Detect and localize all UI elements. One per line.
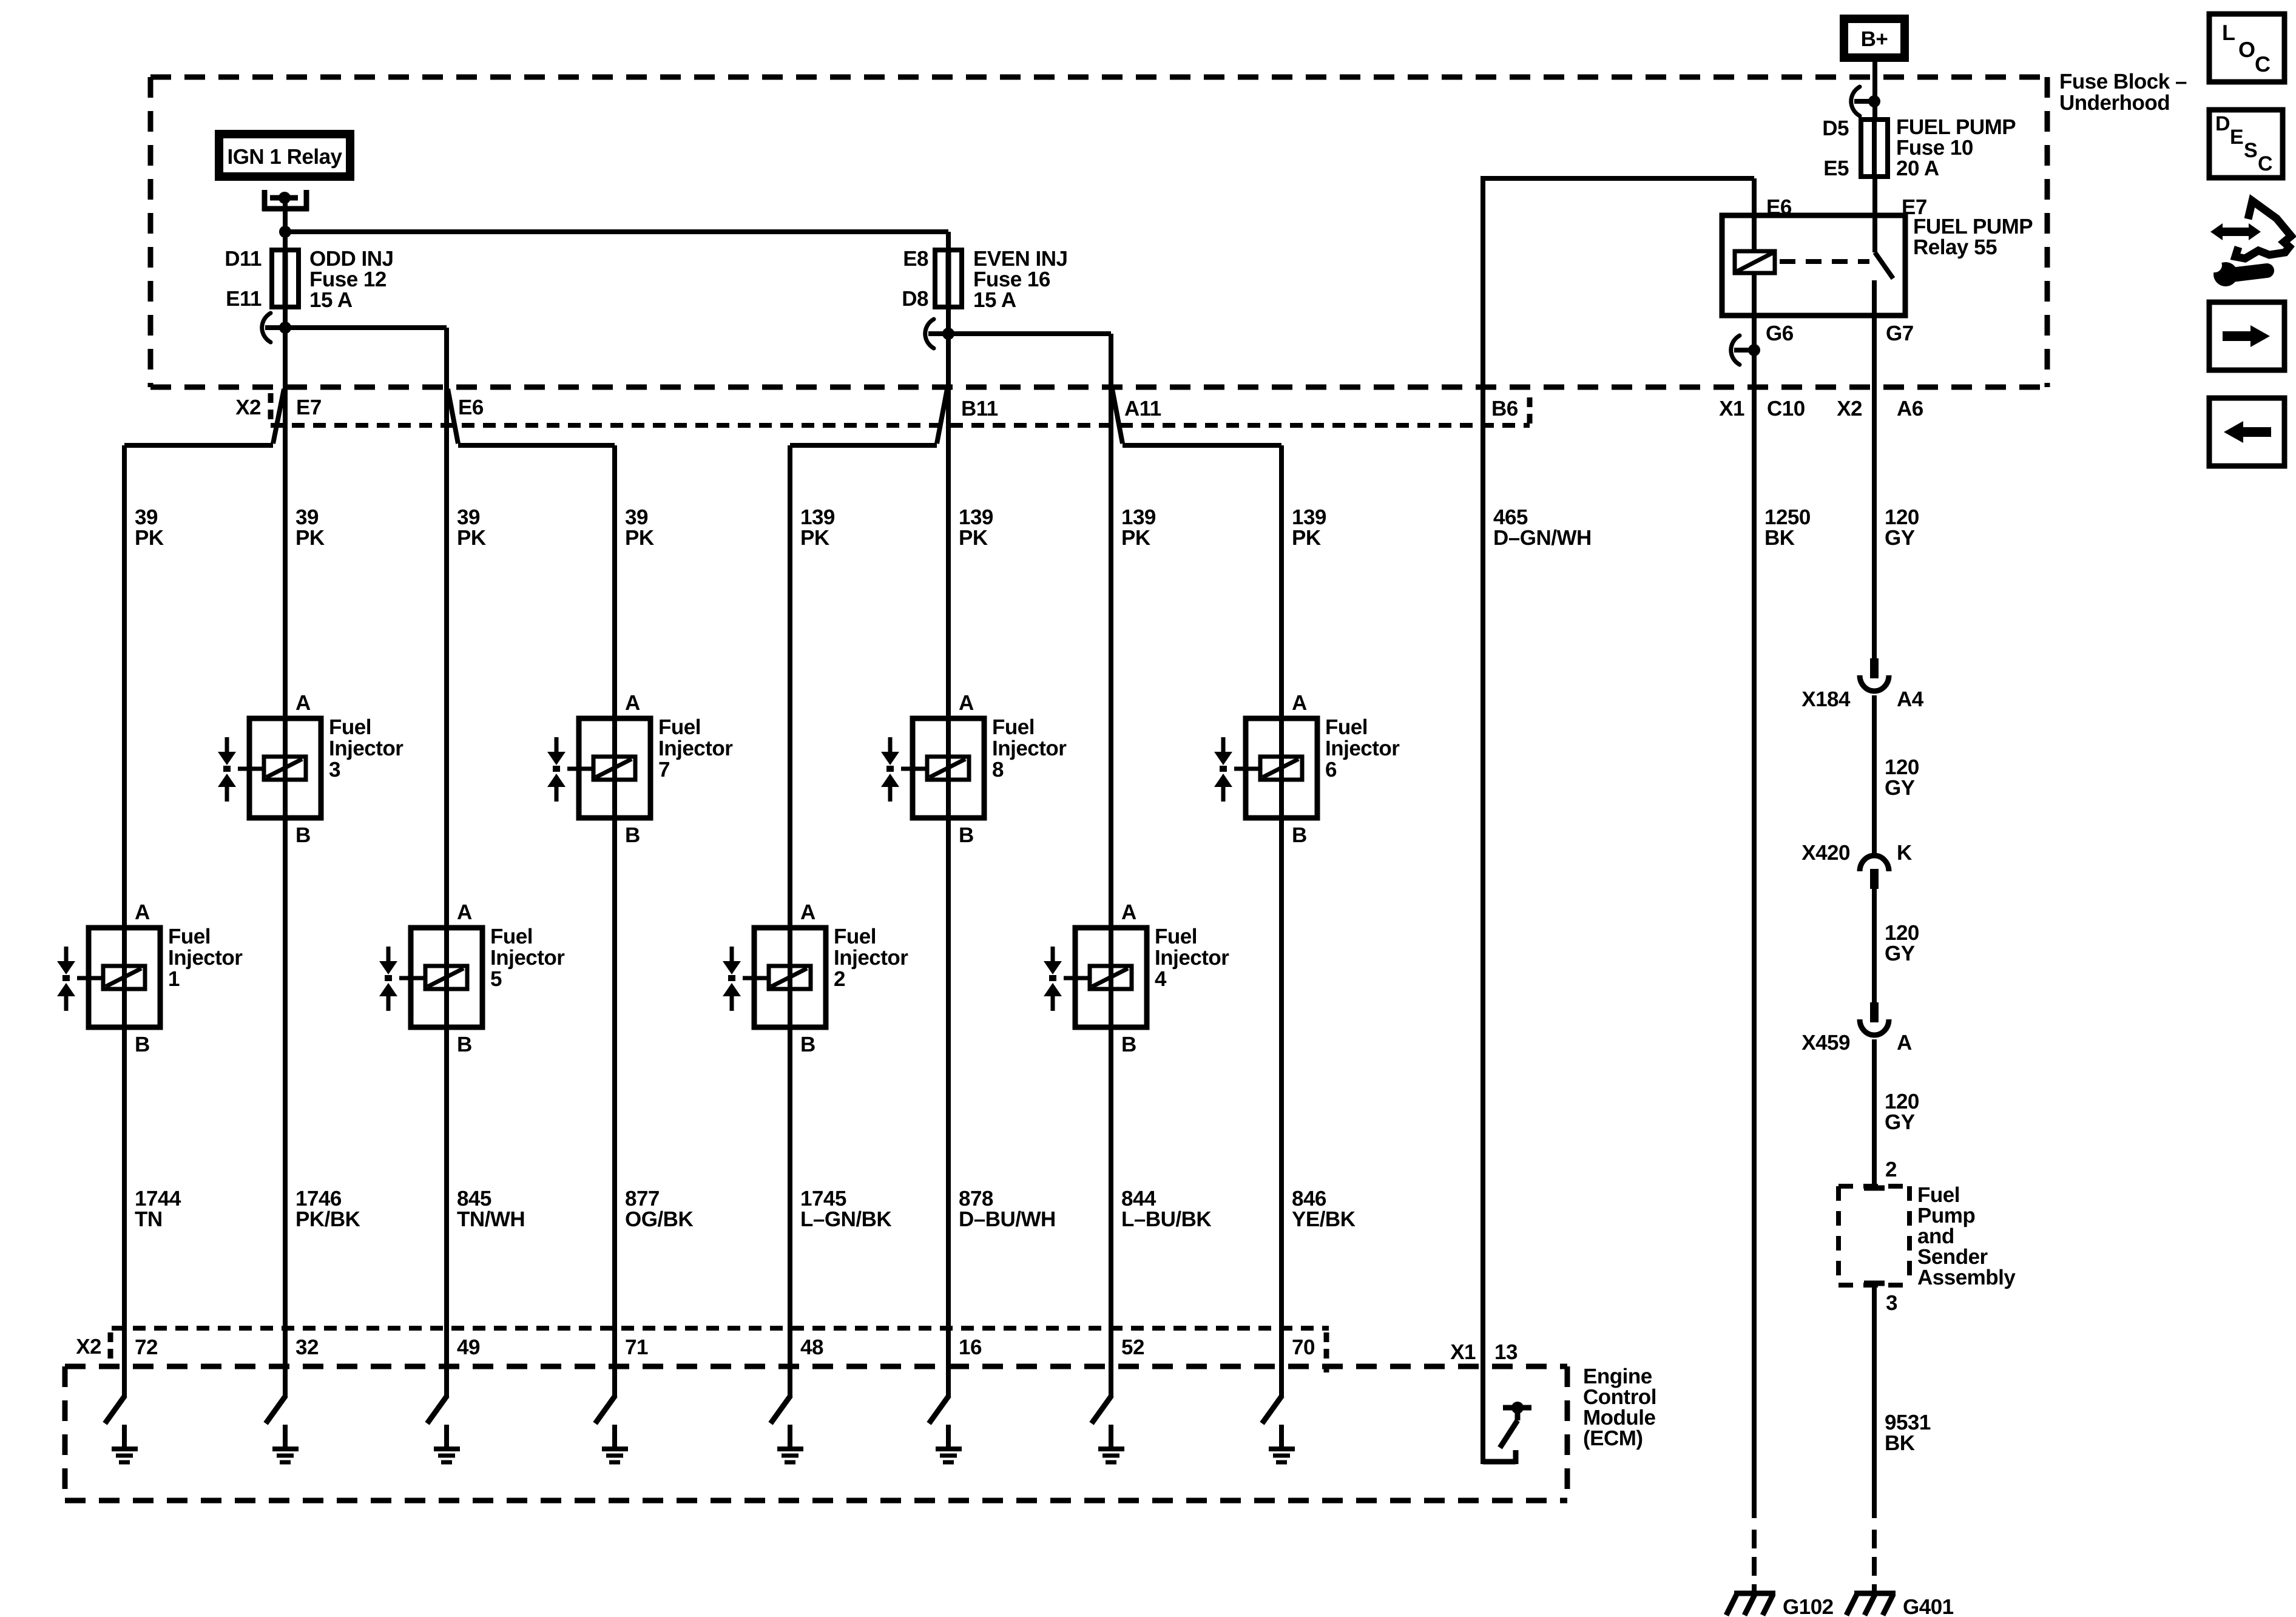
svg-text:D–BU/WH: D–BU/WH	[959, 1207, 1056, 1231]
svg-text:PK: PK	[625, 526, 654, 550]
svg-text:Injector: Injector	[834, 946, 908, 970]
wire injector column x=1831	[1109, 334, 1113, 1397]
connector X420 pin K	[1860, 856, 1889, 871]
svg-text:2: 2	[1885, 1158, 1897, 1181]
svg-text:Fuel: Fuel	[658, 715, 701, 739]
connector pass-through dotted line	[271, 423, 1530, 428]
wire A11 jog to injector 6 column	[1112, 389, 1123, 444]
svg-text:3: 3	[1886, 1291, 1897, 1315]
icon LOC box	[2209, 14, 2284, 82]
wire E6 jog to injector 7 column	[448, 389, 458, 444]
svg-text:D8: D8	[902, 287, 928, 311]
icon back arrow box	[2209, 398, 2284, 466]
svg-text:A: A	[959, 691, 974, 715]
svg-text:X1: X1	[1719, 397, 1744, 420]
svg-text:K: K	[1897, 841, 1912, 865]
svg-text:E8: E8	[903, 247, 928, 271]
svg-text:D: D	[2215, 112, 2230, 135]
connector row labels X2/E7/E6/B11/A11/B6	[235, 393, 1530, 425]
fuel injector 3	[249, 718, 321, 818]
svg-text:BK: BK	[1885, 1431, 1915, 1455]
relay actuation dashed link	[1780, 259, 1869, 264]
wire injector column x=470	[283, 390, 288, 1397]
ground: ECM internal ground	[444, 1425, 449, 1448]
fuel injector 6	[1246, 718, 1317, 818]
wire: ECM internal switch blade	[1092, 1396, 1112, 1423]
svg-text:5: 5	[490, 967, 502, 991]
wire 9531 BK	[1872, 1286, 1877, 1518]
wire 120 GY segment	[1872, 695, 1877, 856]
svg-text:A: A	[135, 900, 150, 924]
svg-text:E11: E11	[226, 287, 262, 311]
svg-text:13: 13	[1494, 1340, 1518, 1364]
svg-text:1: 1	[168, 967, 180, 991]
svg-text:Relay 55: Relay 55	[1913, 235, 1997, 259]
svg-text:PK: PK	[1292, 526, 1321, 550]
svg-text:49: 49	[457, 1335, 480, 1359]
svg-text:Injector: Injector	[1325, 737, 1400, 760]
wire dashed lead to G401	[1872, 1530, 1877, 1593]
wire: ECM internal switch blade	[266, 1396, 286, 1423]
wire 120 GY segment	[1872, 889, 1877, 1005]
svg-text:B: B	[1292, 823, 1307, 847]
fuel pump and sender assembly box	[1838, 1158, 2016, 1315]
svg-text:YE/BK: YE/BK	[1292, 1207, 1356, 1231]
svg-text:6: 6	[1325, 758, 1337, 781]
svg-text:70: 70	[1292, 1335, 1315, 1359]
svg-text:B: B	[295, 823, 311, 847]
svg-text:L–BU/BK: L–BU/BK	[1121, 1207, 1211, 1231]
svg-text:E7: E7	[296, 396, 322, 419]
svg-text:48: 48	[800, 1335, 823, 1359]
svg-text:PK: PK	[295, 526, 325, 550]
fuse FUEL PUMP Fuse 10 20 A	[1822, 115, 2016, 180]
svg-text:7: 7	[658, 758, 670, 781]
ground: ECM internal ground	[946, 1425, 951, 1448]
svg-text:G401: G401	[1903, 1595, 1954, 1617]
svg-text:TN: TN	[135, 1207, 163, 1231]
svg-text:B11: B11	[961, 397, 998, 420]
svg-text:C: C	[2258, 152, 2272, 175]
svg-text:71: 71	[625, 1335, 648, 1359]
svg-text:16: 16	[959, 1335, 982, 1359]
svg-text:X2: X2	[76, 1335, 101, 1359]
fuel injector 7	[579, 718, 650, 818]
svg-text:A: A	[295, 691, 311, 715]
svg-text:Fuel: Fuel	[834, 925, 876, 948]
svg-text:IGN 1 Relay: IGN 1 Relay	[227, 145, 342, 169]
svg-text:PK: PK	[1121, 526, 1150, 550]
svg-text:X2: X2	[1837, 397, 1862, 420]
wire fuse 10 to relay E7	[1872, 175, 1877, 252]
svg-text:PK/BK: PK/BK	[295, 1207, 360, 1231]
svg-text:8: 8	[992, 758, 1004, 781]
ground G102	[1734, 1591, 1775, 1596]
svg-text:D5: D5	[1822, 116, 1849, 140]
power symbol B+	[1840, 15, 1909, 62]
fuse block underhood box	[150, 70, 2187, 387]
wire labels circuit numbers bottom	[135, 1187, 1356, 1231]
svg-text:S: S	[2244, 139, 2257, 162]
wire G6 to C10	[1752, 316, 1757, 1518]
splice clip at D5	[1851, 87, 1880, 116]
wire labels circuit numbers top	[135, 505, 1919, 550]
svg-text:(ECM): (ECM)	[1583, 1426, 1643, 1450]
ground G401	[1854, 1591, 1896, 1596]
wire D8 junction to A11	[948, 331, 1111, 336]
wire injector column x=1563	[946, 390, 951, 1397]
svg-text:E5: E5	[1823, 157, 1849, 180]
svg-text:TN/WH: TN/WH	[457, 1207, 525, 1231]
svg-text:B: B	[135, 1033, 150, 1056]
connector dotted line ECM X2	[112, 1326, 1329, 1331]
svg-text:Injector: Injector	[329, 737, 403, 760]
svg-text:Injector: Injector	[992, 737, 1067, 760]
fuse EVEN INJ Fuse 16 15 A	[902, 247, 1067, 312]
wire: ECM internal switch blade	[771, 1396, 791, 1423]
svg-text:E6: E6	[1766, 195, 1792, 219]
svg-text:Injector: Injector	[658, 737, 733, 760]
svg-text:D11: D11	[225, 247, 262, 271]
svg-text:32: 32	[295, 1335, 319, 1359]
svg-text:A: A	[1897, 1031, 1912, 1055]
svg-text:X420: X420	[1801, 841, 1850, 865]
svg-text:A: A	[625, 691, 640, 715]
svg-text:2: 2	[834, 967, 845, 991]
connector X184 pin A4	[1870, 658, 1879, 678]
wire fuse 12 to E7	[283, 307, 288, 390]
relay FUEL PUMP Relay 55	[1722, 195, 2033, 345]
connector X459 pin A	[1870, 1002, 1879, 1022]
svg-text:B: B	[959, 823, 974, 847]
icon forward arrow box	[2209, 302, 2284, 370]
svg-text:A4: A4	[1897, 687, 1924, 711]
svg-text:A: A	[1292, 691, 1307, 715]
ground: ECM internal ground	[788, 1425, 792, 1448]
splice clip at E11	[262, 313, 291, 342]
relay switch blade	[1875, 252, 1893, 279]
wire dashed lead to G102	[1752, 1530, 1757, 1593]
svg-text:E6: E6	[458, 396, 484, 419]
svg-text:G7: G7	[1886, 322, 1914, 345]
svg-text:B: B	[457, 1033, 472, 1056]
wire to EVEN INJ fuse	[285, 229, 948, 234]
connector labels X1 C10 X2 A6	[1719, 397, 1923, 420]
svg-text:O: O	[2238, 37, 2255, 62]
svg-text:A: A	[800, 900, 815, 924]
svg-text:B6: B6	[1491, 397, 1518, 420]
wire G7 to A6	[1872, 316, 1877, 661]
wire B11 jog to injector 2 column	[937, 389, 947, 444]
svg-text:BK: BK	[1764, 526, 1795, 550]
svg-text:Fuel: Fuel	[1325, 715, 1368, 739]
svg-text:GY: GY	[1885, 776, 1915, 800]
svg-text:Fuse Block –: Fuse Block –	[2059, 70, 2187, 93]
svg-text:D–GN/WH: D–GN/WH	[1493, 526, 1592, 550]
svg-text:52: 52	[1121, 1335, 1144, 1359]
wire injector column x=1302	[788, 445, 792, 1397]
ground: ECM internal ground	[1279, 1425, 1284, 1448]
svg-text:Assembly: Assembly	[1917, 1266, 2016, 1289]
svg-text:PK: PK	[457, 526, 486, 550]
svg-text:A6: A6	[1897, 397, 1923, 420]
svg-text:72: 72	[135, 1335, 158, 1359]
ECM internal low-side driver X1-13	[1483, 1402, 1531, 1464]
wire injector column x=205	[122, 445, 127, 1397]
svg-text:X459: X459	[1801, 1031, 1850, 1055]
wire 120 GY segment	[1872, 1039, 1877, 1186]
relay coil	[1735, 251, 1775, 273]
svg-text:L–GN/BK: L–GN/BK	[800, 1207, 891, 1231]
svg-text:E: E	[2230, 126, 2243, 149]
wire relay coil feed to B6	[1483, 176, 1754, 181]
svg-text:B+: B+	[1861, 27, 1888, 51]
svg-text:Injector: Injector	[1155, 946, 1229, 970]
wire: ECM internal switch blade	[929, 1396, 949, 1423]
svg-text:C: C	[2255, 52, 2271, 76]
svg-text:GY: GY	[1885, 526, 1915, 550]
ground: ECM internal ground	[612, 1425, 617, 1448]
fuel injector 8	[913, 718, 984, 818]
svg-text:Fuel: Fuel	[168, 925, 211, 948]
svg-text:PK: PK	[800, 526, 829, 550]
ground: ECM internal ground	[1109, 1425, 1113, 1448]
svg-text:C10: C10	[1767, 397, 1805, 420]
svg-text:G102: G102	[1783, 1595, 1834, 1617]
svg-text:PK: PK	[959, 526, 988, 550]
fuel injector 5	[411, 928, 482, 1027]
svg-text:4: 4	[1155, 967, 1167, 991]
wire E7 jog to injector 1 column	[273, 389, 284, 444]
ground: ECM internal ground	[283, 1425, 288, 1448]
wire: ECM internal switch blade	[1262, 1396, 1282, 1423]
svg-text:Fuel: Fuel	[490, 925, 533, 948]
svg-text:A: A	[1121, 900, 1136, 924]
svg-text:X184: X184	[1801, 687, 1851, 711]
relay IGN 1 Relay label box	[215, 130, 354, 181]
wire injector column x=2112	[1279, 445, 1284, 1397]
svg-text:Fuel: Fuel	[992, 715, 1035, 739]
fuel injector 2	[754, 928, 826, 1027]
svg-text:X2: X2	[235, 396, 261, 419]
connector bracket under IGN 1 relay	[262, 190, 309, 211]
engine control module box	[65, 1365, 1656, 1501]
icon vehicle part with wrench	[2207, 201, 2291, 286]
wire IGN relay output	[283, 198, 288, 252]
svg-text:A11: A11	[1124, 397, 1161, 420]
junction node	[279, 226, 291, 238]
svg-text:OG/BK: OG/BK	[625, 1207, 693, 1231]
svg-text:Injector: Injector	[168, 946, 243, 970]
svg-text:15 A: 15 A	[973, 288, 1016, 312]
fuse ODD INJ Fuse 12 15 A	[225, 247, 393, 312]
svg-text:GY: GY	[1885, 1110, 1915, 1134]
svg-text:Injector: Injector	[490, 946, 565, 970]
wire injector column x=1013	[612, 445, 617, 1397]
wire: ECM internal switch blade	[427, 1396, 447, 1423]
wire fuse 16 to B11	[946, 307, 951, 390]
svg-text:15 A: 15 A	[309, 288, 353, 312]
icon DESC box	[2209, 110, 2283, 178]
fuel injector 4	[1075, 928, 1147, 1027]
svg-text:B: B	[800, 1033, 815, 1056]
svg-text:L: L	[2222, 20, 2235, 45]
svg-text:X1: X1	[1450, 1340, 1476, 1364]
fuel injector 1	[89, 928, 160, 1027]
wire: ECM internal switch blade	[595, 1396, 615, 1423]
svg-text:PK: PK	[135, 526, 164, 550]
svg-text:Fuel: Fuel	[1155, 925, 1197, 948]
svg-text:B: B	[1121, 1033, 1136, 1056]
splice clip at D8	[925, 319, 954, 348]
svg-text:B: B	[625, 823, 640, 847]
svg-text:G6: G6	[1766, 322, 1794, 345]
svg-text:Fuel: Fuel	[329, 715, 371, 739]
svg-text:3: 3	[329, 758, 340, 781]
svg-text:Underhood: Underhood	[2059, 91, 2170, 115]
svg-text:A: A	[457, 900, 472, 924]
wire B+ to fuse 10	[1872, 62, 1877, 121]
splice clip at G6	[1731, 336, 1760, 365]
svg-text:GY: GY	[1885, 942, 1915, 965]
wire injector column x=736	[444, 328, 449, 1397]
ground: ECM internal ground	[122, 1425, 127, 1448]
wire E11 junction to E6	[285, 325, 447, 330]
svg-text:20 A: 20 A	[1896, 157, 1939, 180]
wire: ECM internal switch blade	[105, 1396, 125, 1423]
